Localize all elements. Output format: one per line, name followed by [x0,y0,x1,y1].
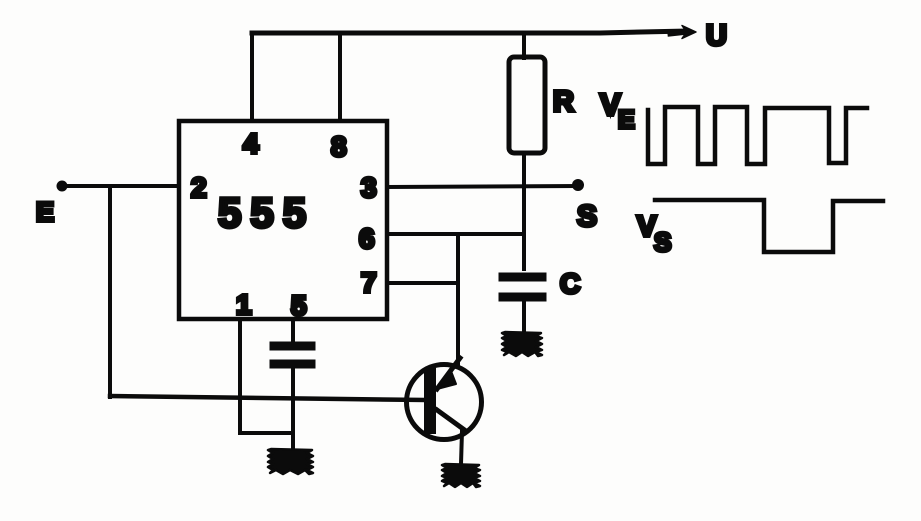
resistor R [509,57,545,153]
wire collector vertical [456,234,460,365]
svg-text:555: 555 [218,189,315,236]
wire pin1 to cap5 net [240,431,293,435]
svg-text:8: 8 [331,131,347,162]
svg-text:U: U [706,20,727,52]
wire pin 1 down [238,319,242,433]
ground under C [502,332,542,356]
node E [57,181,68,192]
transistor emitter arrow [437,371,456,389]
wire emitter to ground [461,431,462,464]
wire E branch down-left [108,186,112,397]
waveform VE [648,107,867,164]
wire pin4 vertical [250,33,254,121]
wire to transistor base [110,396,424,400]
ground under transistor [442,464,480,487]
svg-text:S: S [577,200,597,233]
wire pin 7 [387,281,458,285]
svg-text:E: E [618,106,635,134]
op-amp U1 555 box [179,121,387,319]
wire pin 6 [387,232,524,236]
transistor Q1 body [407,365,482,440]
capacitor C plate top [503,273,542,282]
wire E to pin 2 [62,184,179,188]
svg-text:6: 6 [359,223,375,254]
waveform VS [655,200,883,252]
svg-text:3: 3 [361,172,377,203]
capacitor C5 plate top [274,342,311,351]
svg-text:C: C [560,268,580,299]
wire capacitor C to ground [522,301,526,334]
node U arrowhead [670,32,688,34]
wire pin 5 down [291,319,295,342]
svg-text:R: R [553,86,574,118]
wire supply rail top [252,31,686,33]
wire resistor to capacitor C (through node S junction and pin6 line) [522,153,526,269]
svg-text:1: 1 [236,289,252,320]
svg-text:7: 7 [361,267,377,298]
node S [572,179,584,191]
ground under cap5 [268,449,313,474]
svg-text:E: E [36,197,54,227]
wire cap5 to ground [291,368,295,451]
svg-text:4: 4 [243,128,259,159]
capacitor C plate bottom [503,293,542,302]
transistor collector diagonal [437,410,466,431]
wire pin 3 to node S [387,186,577,187]
transistor base bar [424,374,436,428]
svg-text:S: S [654,227,671,257]
transistor emitter diagonal (to collector wire above) [437,358,460,389]
svg-text:5: 5 [291,290,307,321]
svg-text:2: 2 [191,172,207,203]
wire pin8 vertical [338,33,342,121]
capacitor C5 plate bottom [274,360,311,369]
wire rail to resistor [522,33,526,58]
